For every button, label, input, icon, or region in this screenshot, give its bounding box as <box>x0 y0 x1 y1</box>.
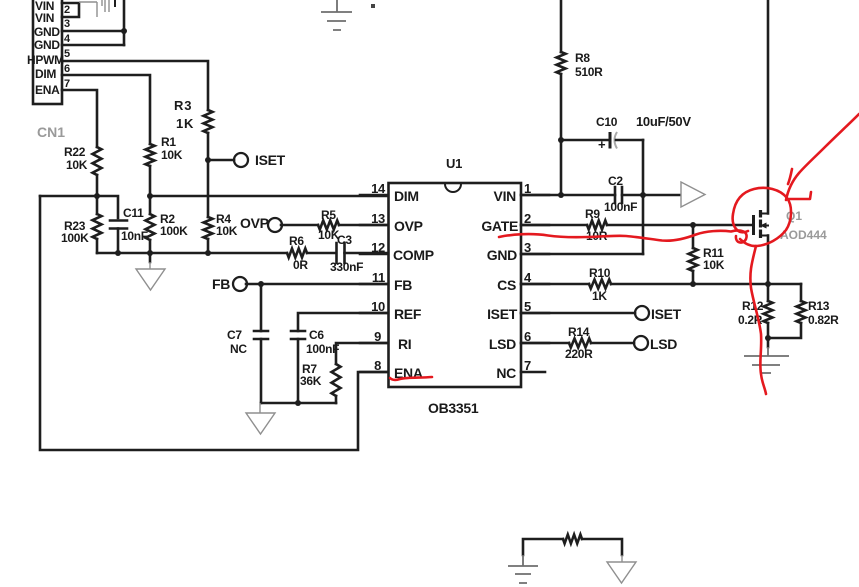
wire R3 to ISET node <box>207 133 210 160</box>
svg-text:R22: R22 <box>64 145 86 159</box>
capacitor C3 <box>337 243 345 263</box>
wire vertical input cap branch <box>123 0 126 45</box>
resistor bottom <box>563 535 582 544</box>
wire CS pin4 <box>521 283 589 286</box>
wire GND pin3 <box>521 253 643 256</box>
red arrow flick <box>788 169 792 184</box>
svg-text:R10: R10 <box>589 266 611 280</box>
CN1 pin numbers <box>64 4 71 90</box>
junction R3/ISET <box>205 157 211 163</box>
svg-text:9: 9 <box>374 329 381 344</box>
svg-text:NC: NC <box>496 365 516 381</box>
transistor Q1 <box>752 215 755 235</box>
junction FB/C7 <box>258 281 264 287</box>
off-page triangle <box>681 182 705 207</box>
svg-text:10: 10 <box>371 299 385 314</box>
svg-text:10K: 10K <box>216 224 238 238</box>
wire OVP to R5 <box>281 224 318 227</box>
wire GATE pin2 <box>521 224 587 227</box>
svg-text:C11: C11 <box>123 206 144 220</box>
wire PWM to R3 <box>62 61 208 110</box>
svg-text:RI: RI <box>398 336 411 352</box>
wire R22 node to R23 <box>96 196 99 214</box>
U1 left pin numbers <box>371 181 386 373</box>
svg-text:ISET: ISET <box>487 306 518 322</box>
wire R8 column <box>560 0 563 52</box>
wire VIN pins loop <box>62 3 79 17</box>
svg-text:OVP: OVP <box>240 215 269 231</box>
svg-text:11: 11 <box>372 270 385 285</box>
junction node R22/R23 <box>94 193 100 199</box>
wire top stub <box>114 0 116 6</box>
svg-text:R5: R5 <box>321 208 336 222</box>
svg-text:R13: R13 <box>808 299 830 313</box>
svg-text:10K: 10K <box>66 158 88 172</box>
wire GND pin3 <box>62 30 124 33</box>
resistor R11 <box>692 225 695 248</box>
junction R4 bottom <box>205 250 211 256</box>
U1 right pin stubs <box>521 195 549 372</box>
wire top caps (cut off) <box>79 0 109 17</box>
op-amp U1 box <box>389 183 522 387</box>
svg-text:R3: R3 <box>174 98 192 113</box>
U1 left pin names <box>393 188 434 381</box>
svg-text:5: 5 <box>64 48 70 60</box>
capacitor C7 <box>254 331 268 339</box>
resistor R6 <box>287 249 307 258</box>
svg-text:8: 8 <box>374 358 381 373</box>
ground under R12 <box>767 338 770 347</box>
wire R6 to C3 <box>307 252 336 255</box>
wire VIN pin1 <box>521 194 615 197</box>
svg-text:14: 14 <box>371 181 386 196</box>
resistor R2 <box>146 214 155 240</box>
svg-text:DIM: DIM <box>35 67 56 81</box>
junction C10 tap <box>558 137 564 143</box>
resistor R23 <box>93 214 102 239</box>
wire R3 node down to R4 <box>207 160 210 217</box>
junction VIN/R8 <box>558 192 564 198</box>
svg-text:HPWM: HPWM <box>27 53 64 67</box>
U1 left pin stubs <box>360 195 388 372</box>
svg-text:100nF: 100nF <box>604 200 637 214</box>
svg-text:510R: 510R <box>575 65 603 79</box>
resistor R5 <box>318 221 339 230</box>
wire LSD pin6 <box>521 342 569 345</box>
stray dot <box>371 4 375 8</box>
junction GND input <box>121 28 127 34</box>
svg-text:C6: C6 <box>309 328 324 342</box>
wire C10/C2 gnd branch <box>642 140 645 254</box>
resistor R22 <box>93 147 102 175</box>
svg-text:ISET: ISET <box>255 152 286 168</box>
svg-text:CN1: CN1 <box>37 124 65 140</box>
ground triangle under R2 <box>149 253 152 262</box>
svg-text:FB: FB <box>394 277 412 293</box>
resistor R7 <box>332 364 341 396</box>
wire R5 to pin13 <box>339 224 388 227</box>
svg-text:CS: CS <box>497 277 516 293</box>
resistor R12 <box>767 284 770 301</box>
junction gate/R11 <box>690 222 696 228</box>
resistor R8 <box>557 52 566 74</box>
wire node to DIM pin14 <box>150 195 388 198</box>
wire ISET pin5 <box>521 312 635 315</box>
wire DIM to R1 <box>62 75 150 144</box>
resistor R14 <box>569 339 591 348</box>
ground bottom-left <box>508 555 538 583</box>
resistor R4 <box>204 217 213 239</box>
ground triangle under C7 <box>246 403 275 434</box>
svg-text:VIN: VIN <box>494 188 517 204</box>
svg-text:220R: 220R <box>565 347 593 361</box>
svg-text:C2: C2 <box>608 174 623 188</box>
junction node R1/R2/DIM <box>147 193 153 199</box>
svg-text:GND: GND <box>34 25 60 39</box>
svg-text:2: 2 <box>64 4 70 16</box>
capacitor C6 <box>291 331 305 339</box>
red arrow diagonal <box>786 114 859 200</box>
resistor R1 <box>146 144 155 166</box>
svg-text:R9: R9 <box>585 207 600 221</box>
wire REF to C6 <box>298 313 388 331</box>
junction C2 right <box>640 192 646 198</box>
U1 notch <box>445 184 461 192</box>
svg-text:13: 13 <box>371 211 385 226</box>
svg-text:LSD: LSD <box>650 336 677 352</box>
wire left rail to C11 <box>40 196 118 218</box>
svg-text:ENA: ENA <box>35 83 60 97</box>
svg-text:C7: C7 <box>227 328 242 342</box>
svg-text:GND: GND <box>34 38 60 52</box>
wire bottom small rail <box>261 402 336 405</box>
svg-text:10nF: 10nF <box>121 229 148 243</box>
svg-text:U1: U1 <box>446 156 462 171</box>
svg-text:R6: R6 <box>289 234 304 248</box>
bottom sub-circuit wire <box>523 539 563 555</box>
red underline ENA <box>390 377 432 380</box>
red gate squiggle <box>499 230 747 242</box>
terminal ISET right <box>635 306 649 320</box>
wire to ISET terminal <box>208 159 234 162</box>
wire big loop ENA <box>40 196 388 450</box>
wire GND pin4 <box>62 44 124 47</box>
svg-text:DIM: DIM <box>394 188 419 204</box>
svg-text:GND: GND <box>487 247 517 263</box>
wire FB to pin11 <box>246 283 388 286</box>
connector CN1 box <box>33 0 62 104</box>
wire RI to R7 <box>336 343 388 364</box>
svg-text:0R: 0R <box>293 258 308 272</box>
svg-text:VIN: VIN <box>35 11 54 25</box>
junction C6 bottom <box>295 400 301 406</box>
wire R9 to gate <box>607 224 753 227</box>
svg-text:GATE: GATE <box>481 218 518 234</box>
terminal ISET <box>234 153 248 167</box>
svg-text:10uF/50V: 10uF/50V <box>636 114 691 129</box>
svg-text:C10: C10 <box>596 115 618 129</box>
capacitor C11 <box>110 221 127 229</box>
svg-text:3: 3 <box>64 18 70 30</box>
ground top-center <box>321 0 352 30</box>
svg-text:FB: FB <box>212 276 230 292</box>
capacitor C10 <box>561 139 609 142</box>
terminal LSD <box>634 336 648 350</box>
resistor R9 <box>587 221 607 230</box>
junction R11 bottom <box>690 281 696 287</box>
svg-text:COMP: COMP <box>393 247 434 263</box>
svg-text:1K: 1K <box>176 116 194 131</box>
svg-text:12: 12 <box>371 240 385 255</box>
svg-text:7: 7 <box>524 358 531 373</box>
svg-text:10K: 10K <box>161 148 183 162</box>
red arrow hook <box>787 192 811 199</box>
red vertical squiggle <box>750 246 766 394</box>
wire C2 to triangle <box>622 194 680 197</box>
junction C11 bottom <box>115 250 121 256</box>
svg-text:+: + <box>598 137 606 152</box>
svg-text:100K: 100K <box>61 231 89 245</box>
CN1 pin labels <box>27 0 64 97</box>
svg-text:R1: R1 <box>161 135 176 149</box>
svg-text:OB3351: OB3351 <box>428 400 479 416</box>
resistor R13 <box>800 284 803 301</box>
wire bottom rail <box>97 252 287 255</box>
svg-text:330nF: 330nF <box>330 260 363 274</box>
capacitor C2 <box>615 187 622 203</box>
U1 right pin names <box>481 188 518 381</box>
svg-text:100K: 100K <box>160 224 188 238</box>
svg-text:1K: 1K <box>592 289 607 303</box>
svg-text:NC: NC <box>230 342 247 356</box>
svg-text:36K: 36K <box>300 374 322 388</box>
svg-text:7: 7 <box>64 78 70 90</box>
red circle around Q1 <box>733 188 791 246</box>
U1 right pin numbers <box>524 181 532 373</box>
svg-text:REF: REF <box>394 306 422 322</box>
svg-text:R8: R8 <box>575 51 590 65</box>
svg-text:C3: C3 <box>337 233 352 247</box>
wire CS rail <box>611 283 801 286</box>
junction R2 bottom <box>147 250 153 256</box>
svg-text:100nF: 100nF <box>306 342 339 356</box>
svg-text:10K: 10K <box>703 258 725 272</box>
svg-text:0.82R: 0.82R <box>808 313 839 327</box>
wire C3 to pin12 <box>345 252 389 255</box>
junction Q1 source/CS rail <box>765 281 771 287</box>
resistor R10 <box>589 280 611 289</box>
svg-text:LSD: LSD <box>489 336 516 352</box>
wire R1 node to R2 <box>149 196 152 214</box>
svg-text:ISET: ISET <box>651 306 682 322</box>
svg-text:OVP: OVP <box>394 218 423 234</box>
svg-text:6: 6 <box>64 63 70 75</box>
wire C7 branch <box>260 284 263 331</box>
svg-text:R14: R14 <box>568 325 590 339</box>
resistor R3 <box>204 110 213 133</box>
svg-text:Q1: Q1 <box>786 209 802 223</box>
wire ENA to R22 <box>62 90 97 147</box>
ground triangle bottom <box>607 555 636 583</box>
junction R12/R13 bottom <box>765 335 771 341</box>
